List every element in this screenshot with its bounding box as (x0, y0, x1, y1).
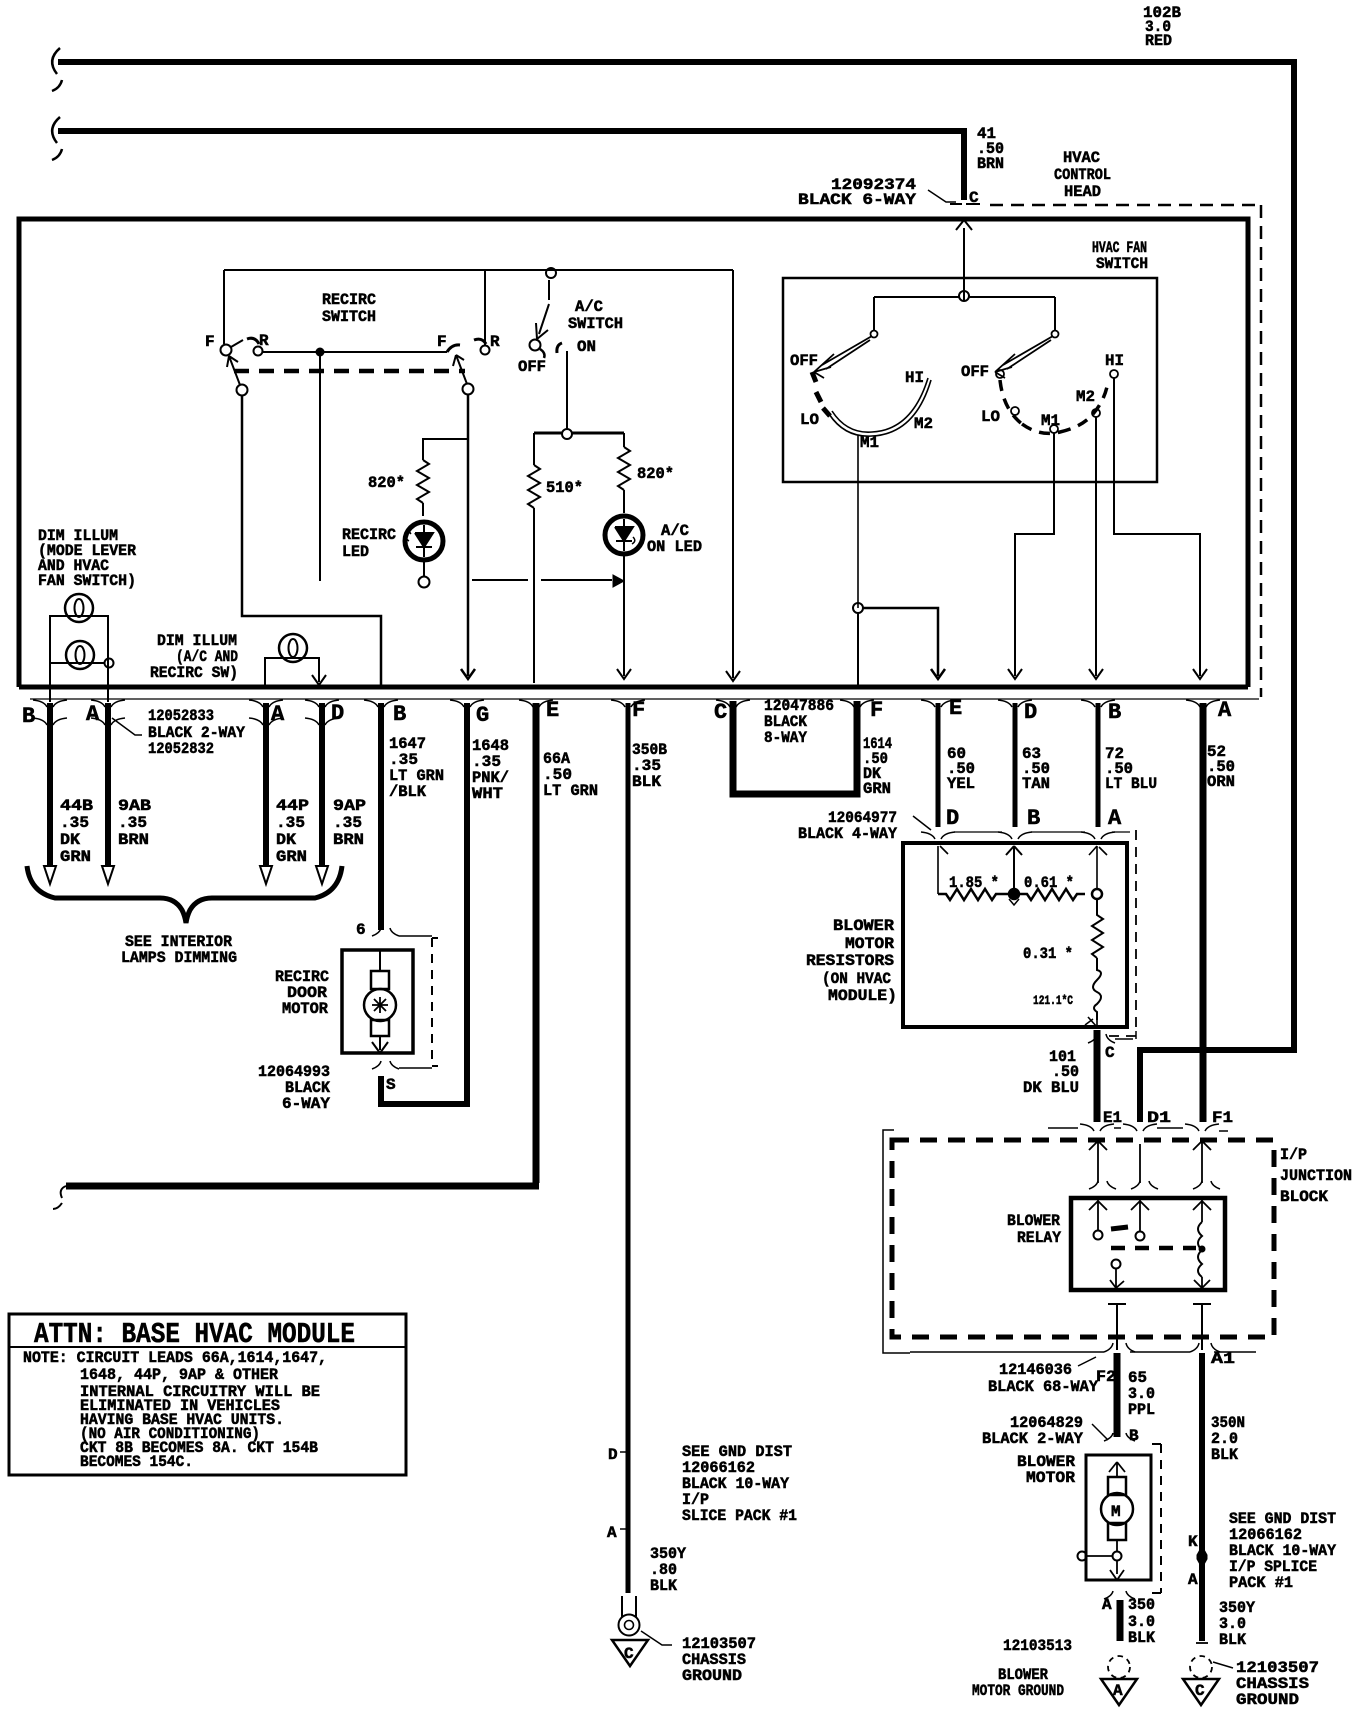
4-way bracket arcs (921, 832, 1115, 839)
svg-text:BLK: BLK (1219, 1631, 1246, 1649)
recirc switch mechanical link dashed (234, 369, 465, 374)
fan switch 2 dashed arc (1000, 380, 1108, 433)
thermal fuse 121.1C (1093, 958, 1101, 1020)
resistor 0.61 ohm (1019, 889, 1085, 900)
wire resistor pair top bar (534, 432, 624, 435)
svg-text:SWITCH: SWITCH (322, 308, 376, 326)
svg-text:BLACK 4-WAY: BLACK 4-WAY (798, 825, 897, 843)
A/C switch ON contact (557, 343, 562, 353)
pin A1 bracket (1190, 1343, 1220, 1352)
4-way pin letters D B A (946, 806, 1122, 831)
svg-text:BECOMES 154C.: BECOMES 154C. (80, 1453, 193, 1471)
fan switch 2 pivot contact (1052, 331, 1059, 338)
lamp hvac fan switch illum (66, 641, 94, 669)
ground blower motor (1108, 1656, 1130, 1678)
4-way dashed bracket right (1106, 830, 1136, 1036)
wire 350 BLK to motor ground (1117, 1600, 1124, 1641)
svg-text:F: F (632, 698, 645, 723)
fan switch 2 M2 contact (1092, 409, 1100, 417)
svg-text:A: A (1108, 806, 1122, 831)
svg-text:HEAD: HEAD (1064, 183, 1101, 201)
svg-text:.35: .35 (118, 814, 147, 832)
svg-text:121.1*C: 121.1*C (1033, 993, 1073, 1008)
svg-text:HI: HI (1105, 352, 1124, 370)
fan switch 1 M2 label (914, 415, 933, 433)
svg-text:RECIRC: RECIRC (322, 291, 376, 309)
svg-text:.35: .35 (60, 814, 89, 832)
connector C to F 8-way U wire (733, 701, 857, 794)
wire 44P DK GRN (263, 703, 269, 866)
svg-text:A: A (1218, 698, 1232, 723)
svg-text:PACK #1: PACK #1 (1229, 1574, 1293, 1592)
fan switch 2 OFF contact (996, 370, 1004, 378)
pin B bracket blower motor (1104, 1433, 1135, 1441)
pin F2 bracket (1104, 1343, 1135, 1352)
fan switch 1 arc LO to HI double line (829, 380, 931, 436)
svg-text:HI: HI (905, 369, 924, 387)
wire 52 ORN (1200, 703, 1207, 1122)
wire 102B RED top feed (58, 62, 1294, 1122)
wire 1648 PNK/WHT (383, 703, 467, 1104)
svg-text:12146036: 12146036 (999, 1361, 1072, 1379)
LED RECIRC indicator (405, 522, 443, 560)
resistor 1.85 ohm (938, 889, 1008, 900)
HVAC control head main box (19, 219, 1248, 687)
recirc door motor label (275, 968, 329, 1018)
connector 12052833 BLACK 2-WAY 12052832 label (148, 707, 245, 758)
svg-text:LO: LO (800, 411, 819, 429)
svg-text:BLK: BLK (632, 773, 661, 791)
wire 350B BLK long run (626, 703, 631, 1593)
svg-text:ORN: ORN (1207, 773, 1235, 791)
wire 9AP BRN (319, 703, 325, 866)
blower motor internals (1109, 1462, 1125, 1477)
svg-text:B: B (1108, 700, 1121, 725)
lamp 3 bracket (265, 658, 326, 687)
connector 12047886 BLACK 8-WAY label (764, 697, 834, 747)
svg-text:B: B (393, 702, 406, 727)
wire F1 into block (1193, 1141, 1211, 1183)
fan switch 2 M1 contact (1050, 425, 1058, 433)
ring terminal center ground (622, 1596, 636, 1617)
wire A/C LED to F 350B (617, 554, 631, 679)
motor internals (379, 950, 381, 971)
motor connector dashed bracket (432, 938, 438, 1066)
svg-text:F2: F2 (1096, 1368, 1116, 1386)
recirc door motor box (342, 950, 413, 1053)
svg-text:820*: 820* (368, 474, 405, 492)
wire 1614 DK GRN label (863, 735, 892, 798)
svg-text:0.31 *: 0.31 * (1023, 945, 1073, 963)
svg-text:BLOWER: BLOWER (1007, 1212, 1060, 1230)
svg-text:RECIRC: RECIRC (342, 526, 396, 544)
svg-text:HVAC: HVAC (1063, 149, 1100, 167)
connector 12064993 BLACK 6-WAY label (258, 1063, 330, 1113)
svg-text:C: C (1105, 1044, 1115, 1062)
wire 350Y BLK label right (1219, 1599, 1255, 1649)
svg-text:A: A (607, 1524, 617, 1542)
wire 350Y .80 BLK label center (650, 1545, 686, 1595)
connector 12103507 CHASSIS GROUND label center (682, 1635, 756, 1685)
svg-text:OFF: OFF (518, 358, 546, 376)
svg-text:JUNCTION: JUNCTION (1280, 1167, 1352, 1185)
svg-text:F: F (437, 333, 447, 351)
junction circle fan switch feed (959, 291, 969, 301)
fan switch 1 pivot contact (871, 331, 878, 338)
svg-text:.35: .35 (333, 814, 362, 832)
svg-text:R: R (490, 333, 500, 351)
wire 72 LT BLU (1096, 703, 1101, 827)
pin C label (969, 189, 979, 207)
svg-text:12052833: 12052833 (148, 707, 214, 725)
resistor feed wires with arrows (938, 846, 948, 894)
svg-text:44B: 44B (60, 797, 93, 815)
relay contact pin from E1 (1089, 1200, 1107, 1230)
relay output T terminals (1108, 1304, 1126, 1350)
svg-text:6-WAY: 6-WAY (282, 1095, 330, 1113)
svg-text:44P: 44P (276, 797, 309, 815)
wire 41 BRN entering control head with arrow (956, 220, 972, 296)
brace see interior lamps dimming (27, 866, 342, 923)
fan switch 2 HI contact (1110, 370, 1118, 378)
SEE GND DIST I/P SPLICE PACK label right (1229, 1510, 1336, 1592)
svg-text:F: F (205, 333, 215, 351)
lamp a/c recirc illum (279, 634, 307, 662)
junction circle 1.85/0.61 (1009, 889, 1019, 899)
svg-text:BLK: BLK (1128, 1629, 1155, 1647)
lamp 2 lead to terminal circle (50, 662, 104, 664)
svg-text:12052832: 12052832 (148, 740, 214, 758)
DIM ILLUM (MODE LEVER AND HVAC FAN SWITCH) label (38, 527, 136, 590)
svg-text:S: S (386, 1076, 396, 1094)
wire switch2 arm down to G (461, 394, 475, 679)
wire stub from junction down (319, 352, 321, 581)
svg-text:FAN SWITCH): FAN SWITCH) (38, 572, 136, 590)
svg-text:.35: .35 (276, 814, 305, 832)
svg-text:M: M (1111, 1503, 1121, 1521)
svg-text:LT BLU: LT BLU (1105, 775, 1157, 793)
wire 101 DK BLU pin C (1094, 1030, 1101, 1122)
resistor 820 ohm (recirc LED) (417, 439, 468, 516)
svg-text:820*: 820* (637, 465, 674, 483)
I/P JUNCTION BLOCK label (1280, 1146, 1352, 1206)
recirc switch 1 fixed contact R (247, 338, 259, 344)
junction dot on R link (316, 348, 325, 357)
recirc door motor pin 6 bracket (372, 928, 432, 936)
wire M1 right output to D 63 (1008, 433, 1054, 679)
A/C SWITCH label (568, 298, 623, 333)
blower motor resistor box (903, 843, 1127, 1027)
wire end tick (1196, 1642, 1208, 1644)
wire ON contact down (566, 351, 568, 429)
svg-text:6: 6 (356, 921, 366, 939)
SEE GND DIST I/P SLICE PACK label center (682, 1443, 797, 1525)
HVAC fan switch box (783, 278, 1157, 482)
svg-text:LT GRN: LT GRN (543, 782, 598, 800)
splice K/A I/P splice pack (1197, 1546, 1207, 1568)
relay contact pin from D1 (1131, 1200, 1149, 1231)
svg-text:M2: M2 (1076, 388, 1095, 406)
I/P junction block dashed box (892, 1140, 1274, 1337)
HVAC control head dashed right edge (1260, 205, 1263, 697)
svg-text:SWITCH: SWITCH (568, 315, 623, 333)
HVAC FAN SWITCH label (1092, 239, 1148, 273)
wire 41 BRN feed (58, 131, 964, 200)
resistor 0.31 ohm vertical (1092, 899, 1103, 958)
svg-text:OFF: OFF (790, 352, 818, 370)
junction circle 0.61/0.31 (1092, 889, 1102, 899)
resistor 820 ohm (A/C) (618, 433, 630, 513)
fan switch 1 LO label (800, 411, 819, 429)
svg-text:A1: A1 (1211, 1350, 1235, 1368)
svg-text:ON: ON (577, 338, 596, 356)
wire 65 PPL (1114, 1353, 1121, 1437)
svg-text:C: C (624, 1645, 634, 1663)
recirc switch 1 pivot contact F (221, 345, 232, 356)
svg-text:NOTE: CIRCUIT LEADS 66A,1614,1: NOTE: CIRCUIT LEADS 66A,1614,1647, (23, 1349, 327, 1367)
svg-text:K: K (1188, 1533, 1198, 1551)
wire M2 output to B 72 (1089, 417, 1103, 679)
ground chassis right (1190, 1656, 1212, 1678)
svg-text:1.85 *: 1.85 * (949, 874, 999, 892)
svg-text:9AB: 9AB (118, 797, 151, 815)
connector 12064829 BLACK 2-WAY label (982, 1414, 1083, 1448)
connector row thin rail (30, 698, 1259, 700)
svg-text:0.61 *: 0.61 * (1024, 874, 1074, 892)
svg-text:A: A (86, 702, 100, 727)
connector letters row (22, 696, 1232, 729)
recirc switch 1 moving arm (227, 340, 243, 385)
svg-text:GRN: GRN (863, 780, 891, 798)
wire 350B pass-through ticks D and A (620, 1452, 628, 1529)
recirc LED bottom terminal circle (423, 560, 425, 576)
svg-text:MOTOR: MOTOR (1026, 1469, 1075, 1487)
fan switch 1 contact dashes OFF to LO (812, 372, 830, 416)
svg-text:TAN: TAN (1022, 775, 1050, 793)
HVAC CONTROL HEAD label (1054, 149, 1111, 201)
svg-text:B: B (22, 704, 35, 729)
node 41 .50 BRN label (977, 125, 1004, 173)
node 102B label (1143, 4, 1181, 50)
svg-text:C: C (1195, 1682, 1205, 1700)
svg-text:D1: D1 (1147, 1109, 1171, 1127)
wire break symbol left end of 102B wire (52, 48, 62, 91)
wire 66A LT GRN long run (66, 703, 539, 1186)
svg-text:I/P: I/P (1280, 1146, 1307, 1164)
wire fan switch 1 M1 output (857, 435, 859, 608)
svg-text:R: R (259, 332, 269, 350)
svg-text:D: D (331, 701, 344, 726)
fan switch 2 wiper arm (995, 336, 1053, 378)
svg-text:LED: LED (342, 543, 369, 561)
svg-text:510*: 510* (546, 479, 583, 497)
LED A/C ON indicator (605, 516, 643, 554)
svg-text:C: C (969, 189, 979, 207)
svg-text:ATTN: BASE HVAC MODULE: ATTN: BASE HVAC MODULE (34, 1318, 355, 1351)
svg-text:DK: DK (60, 831, 80, 849)
svg-text:MOTOR GROUND: MOTOR GROUND (972, 1682, 1064, 1700)
svg-text:BLACK 68-WAY: BLACK 68-WAY (988, 1378, 1098, 1396)
svg-text:A: A (1102, 1596, 1112, 1614)
relay coil (1193, 1200, 1211, 1222)
svg-text:D: D (608, 1446, 618, 1464)
DIM ILLUM (A/C AND RECIRC SW) label (150, 632, 238, 682)
svg-text:9AP: 9AP (333, 797, 366, 815)
junction arrow on LED wire (613, 575, 624, 587)
recirc switch 1 arm lower contact (237, 385, 248, 396)
connector C stub of 6-way (950, 203, 980, 205)
pin S bracket (372, 1061, 432, 1069)
wire D1 into block (1139, 1144, 1141, 1183)
svg-text:E: E (949, 696, 962, 721)
svg-text:SWITCH: SWITCH (1096, 255, 1148, 273)
blower relay box (1071, 1198, 1225, 1290)
svg-text:CONTROL: CONTROL (1054, 166, 1111, 184)
svg-text:A: A (271, 702, 285, 727)
svg-text:BLACK 6-WAY: BLACK 6-WAY (798, 191, 916, 209)
fan switch 1 OFF label (790, 352, 818, 370)
svg-text:GROUND: GROUND (1236, 1691, 1299, 1709)
wire 1647 LT GRN/BLK (378, 703, 384, 930)
pin E1 D1 F1 labels (1103, 1109, 1233, 1127)
wire 9AB BRN (105, 703, 111, 866)
4-way connector row rail (954, 831, 1130, 833)
svg-text:DK BLU: DK BLU (1023, 1079, 1079, 1097)
relay actuation dashed link (1111, 1246, 1196, 1251)
svg-text:G: G (476, 703, 489, 728)
wire break symbol left end of 41 BRN wire (52, 117, 62, 160)
wire LED bottom bus (472, 579, 612, 581)
A/C switch moving arm with arrow (536, 280, 549, 339)
A/C switch pivot on bus (546, 268, 556, 278)
fan switch 1 M1 label (860, 434, 879, 452)
junction block thin partial outline (883, 1130, 910, 1353)
svg-text:BRN: BRN (977, 155, 1004, 173)
fan switch 1 HI label (905, 369, 924, 387)
recirc switch 2 arm lower contact (463, 384, 474, 395)
svg-text:GRN: GRN (276, 848, 307, 866)
svg-text:LO: LO (981, 408, 1000, 426)
svg-text:A/C: A/C (575, 298, 603, 316)
svg-text:PPL: PPL (1128, 1401, 1155, 1419)
svg-text:E: E (546, 698, 559, 723)
svg-text:D: D (946, 806, 959, 831)
connector bracket arcs row (33, 700, 1220, 725)
blower motor box (1086, 1455, 1151, 1580)
wire 44B DK GRN (47, 703, 53, 866)
recirc switch 2 pivot F (437, 333, 447, 351)
HVAC control head dashed top edge (990, 204, 1261, 207)
svg-text:A: A (1113, 1682, 1123, 1700)
svg-text:DK: DK (276, 831, 296, 849)
connector 12103507 CHASSIS GROUND label right (1236, 1659, 1319, 1709)
connector 12092374 BLACK 6-WAY label (798, 176, 916, 209)
svg-text:/BLK: /BLK (389, 783, 426, 801)
A/C switch OFF contact (530, 340, 541, 351)
svg-text:BLOWER: BLOWER (833, 917, 894, 935)
svg-text:1648, 44P, 9AP & OTHER: 1648, 44P, 9AP & OTHER (80, 1366, 279, 1384)
svg-text:M1: M1 (1041, 412, 1060, 430)
svg-text:M1: M1 (860, 434, 879, 452)
blower motor dashed bracket (1152, 1444, 1161, 1593)
wire E1 into block (1089, 1141, 1107, 1183)
svg-text:D: D (1024, 700, 1037, 725)
wire M1 left continues to F 1614 (857, 613, 859, 687)
svg-text:BRN: BRN (118, 831, 149, 849)
wire 60 YEL (936, 703, 941, 827)
wire switch1 arm to connector B 1647 (242, 395, 381, 687)
svg-text:A: A (1188, 1571, 1198, 1589)
fan switch 2 LO contact (1011, 407, 1019, 415)
svg-text:WHT: WHT (472, 785, 503, 803)
svg-text:SLICE PACK #1: SLICE PACK #1 (682, 1507, 797, 1525)
fan switch feed bus (874, 297, 1055, 331)
lamp mode lever illum (65, 594, 93, 622)
svg-text:(ON HVAC: (ON HVAC (822, 970, 891, 988)
wire 63 TAN (1013, 703, 1018, 827)
resistor 510 ohm (528, 433, 540, 683)
ground chassis center (612, 1640, 648, 1666)
recirc switch 2 fixed contact R (474, 339, 486, 344)
svg-text:M2: M2 (914, 415, 933, 433)
svg-text:BLK: BLK (1211, 1446, 1238, 1464)
svg-text:BLK: BLK (650, 1577, 677, 1595)
relay moving contact bar (1111, 1227, 1128, 1229)
SEE INTERIOR LAMPS DIMMING label (121, 933, 237, 967)
RECIRC SWITCH label (322, 291, 376, 326)
svg-text:8-WAY: 8-WAY (764, 729, 807, 747)
svg-text:LAMPS DIMMING: LAMPS DIMMING (121, 949, 237, 967)
svg-text:F: F (870, 698, 883, 723)
svg-text:RELAY: RELAY (1017, 1229, 1061, 1247)
connector 12146036 BLACK 68-WAY label (988, 1361, 1098, 1396)
svg-text:BLOCK: BLOCK (1280, 1188, 1328, 1206)
BLOWER MOTOR label (1017, 1453, 1075, 1487)
svg-text:350: 350 (1128, 1596, 1155, 1614)
wire HI output to A 52 (1114, 378, 1207, 679)
svg-text:ON LED: ON LED (647, 538, 702, 556)
BLOWER RELAY label (1007, 1212, 1061, 1247)
junction block top bracket arcs (1048, 1124, 1228, 1131)
connector 12064977 BLACK 4-WAY label (798, 809, 897, 843)
svg-text:BRN: BRN (333, 831, 364, 849)
svg-text:B: B (1129, 1427, 1139, 1445)
svg-text:BLACK 2-WAY: BLACK 2-WAY (982, 1430, 1083, 1448)
svg-text:RESISTORS: RESISTORS (806, 952, 894, 970)
wire C drop to connector C (726, 270, 740, 681)
svg-text:MODULE): MODULE) (828, 987, 897, 1005)
svg-text:GROUND: GROUND (682, 1667, 742, 1685)
recirc/ac switch top bus wire (224, 270, 733, 344)
wire R2 up to bus (484, 270, 486, 345)
fan switch 1 wiper arm (814, 336, 872, 378)
ATTN BASE HVAC MODULE note box (9, 1314, 406, 1475)
svg-text:RED: RED (1145, 32, 1172, 50)
svg-text:MOTOR: MOTOR (845, 935, 894, 953)
svg-text:GRN: GRN (60, 848, 91, 866)
blower motor resistors label (806, 917, 897, 1005)
svg-text:B: B (1027, 806, 1040, 831)
svg-text:C: C (714, 700, 727, 725)
junction block bottom rail (910, 1351, 1256, 1353)
wire M1 left junction to E 60 (853, 603, 863, 613)
recirc switch 2 moving arm (453, 355, 467, 384)
junction circle at resistor pair top (562, 429, 572, 439)
wire R1 to R2 link (263, 351, 447, 353)
svg-text:12103513: 12103513 (1003, 1637, 1072, 1655)
svg-text:MOTOR: MOTOR (282, 1000, 328, 1018)
svg-text:OFF: OFF (961, 363, 989, 381)
